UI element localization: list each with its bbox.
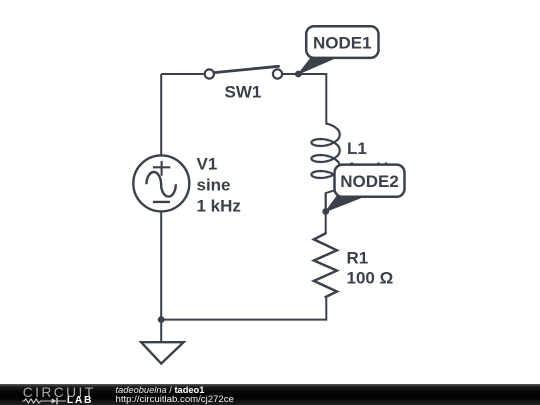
svg-text:V1: V1 xyxy=(197,155,218,174)
resistor R1 xyxy=(314,232,337,298)
junction dot NODE2 xyxy=(322,208,329,215)
logo CIRCUIT xyxy=(23,385,96,400)
logo LAB xyxy=(67,395,93,405)
svg-text:1 kHz: 1 kHz xyxy=(197,196,241,215)
wire left vertical bottom xyxy=(160,211,162,342)
footer line1 xyxy=(116,385,205,395)
node NODE2 flag xyxy=(326,165,405,212)
junction dot ground xyxy=(158,316,165,323)
svg-text:sine: sine xyxy=(197,175,231,194)
footer line2 xyxy=(116,394,234,405)
wire left vertical top xyxy=(160,74,162,155)
wire top horizontal xyxy=(161,73,204,75)
wire right vertical xyxy=(325,73,327,124)
wire bottom horizontal xyxy=(161,298,326,320)
svg-text:L1: L1 xyxy=(347,139,367,158)
switch SW1 xyxy=(205,66,282,78)
ground xyxy=(141,342,184,363)
svg-text:R1: R1 xyxy=(347,249,369,268)
svg-text:100 Ω: 100 Ω xyxy=(347,269,394,288)
junction dot NODE1 xyxy=(295,71,302,78)
voltage source V1 xyxy=(133,155,189,211)
wire switch to node xyxy=(282,73,298,75)
wire node1 to corner xyxy=(298,73,326,75)
logo wire xyxy=(22,397,68,405)
svg-text:NODE1: NODE1 xyxy=(313,33,372,52)
wire node2 to resistor xyxy=(325,193,327,232)
node NODE1 flag xyxy=(298,26,378,74)
svg-text:NODE2: NODE2 xyxy=(340,172,399,191)
footer bar xyxy=(0,384,540,405)
inductor L1 xyxy=(311,124,339,179)
svg-text:SW1: SW1 xyxy=(225,83,262,102)
